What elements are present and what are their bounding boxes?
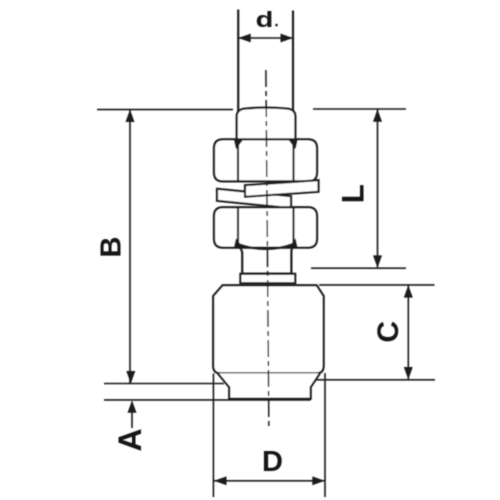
svg-text:A: A — [112, 428, 148, 451]
C arrow down — [404, 367, 413, 380]
label C — [372, 321, 405, 343]
C bottom extension line — [316, 379, 436, 381]
upper nut body — [214, 139, 317, 181]
svg-text:B: B — [96, 237, 128, 258]
flat washer collar — [240, 274, 295, 283]
d arrow left — [238, 34, 251, 43]
spring washer right bar — [245, 180, 319, 197]
anchor body — [213, 285, 323, 373]
L arrow down — [373, 255, 382, 268]
label L — [335, 184, 371, 203]
d dimension line — [238, 37, 293, 39]
lower nut right face line — [292, 208, 294, 244]
lower nut bottom face left side — [240, 247, 242, 274]
label B — [96, 237, 128, 258]
lower nut left face line — [237, 208, 239, 244]
d arrow right — [281, 34, 294, 43]
upper nut chamfer wedge right — [289, 140, 298, 149]
L bottom extension line — [311, 267, 406, 269]
svg-text:L: L — [335, 184, 371, 203]
svg-text:d: d — [256, 8, 274, 32]
spring washer left bar — [217, 189, 291, 208]
A arrow up — [128, 400, 137, 413]
lower nut bottom face right side — [290, 247, 293, 274]
stud rod right outline / d extension — [292, 11, 294, 113]
stud rod left outline / d extension — [237, 10, 239, 113]
svg-text:C: C — [372, 321, 405, 343]
D arrow right — [312, 476, 325, 485]
upper nut left face line — [237, 140, 239, 181]
lower nut bottom face line — [241, 273, 293, 275]
lower nut body — [214, 207, 317, 247]
B top extension line — [97, 109, 233, 111]
L dimension line — [377, 109, 379, 267]
upper nut top chamfer dome — [237, 108, 296, 140]
D dimension line — [214, 480, 324, 482]
C dimension line — [407, 285, 409, 379]
L arrow up — [373, 109, 382, 122]
C top extension line — [319, 284, 435, 286]
upper nut chamfer wedge left — [234, 140, 243, 149]
label d period — [275, 24, 278, 27]
B arrow up — [126, 110, 135, 123]
D left extension line — [212, 374, 214, 498]
upper nut right face line — [292, 140, 294, 181]
lower nut bottom chamfer arc — [239, 244, 292, 249]
B bottom / A top extension line — [104, 383, 224, 385]
A bottom extension line — [104, 399, 311, 401]
L top extension line — [313, 108, 406, 110]
D right extension line — [324, 373, 326, 497]
svg-text:D: D — [262, 446, 283, 478]
lower nut chamfer wedge left — [234, 238, 243, 247]
label d — [256, 8, 274, 32]
label A — [112, 428, 148, 451]
A arrow shaft — [131, 412, 133, 428]
B dimension line — [129, 110, 131, 383]
C arrow up — [404, 285, 413, 298]
D arrow left — [214, 476, 227, 485]
lower nut chamfer wedge right — [289, 238, 298, 247]
centerline — [266, 70, 269, 428]
B arrow down / A arrow down — [126, 371, 135, 384]
bottom flange — [218, 373, 320, 398]
